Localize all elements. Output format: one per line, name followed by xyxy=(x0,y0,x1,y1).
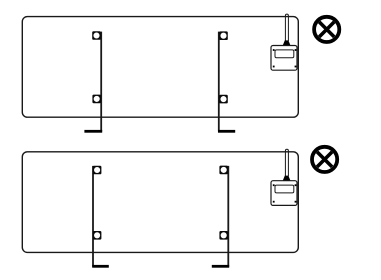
prohibition cross 2 xyxy=(317,152,332,167)
bracket 1 left foot xyxy=(84,130,102,133)
bracket 2 right top mounting hole xyxy=(219,166,228,175)
control box 2 display window xyxy=(275,185,294,193)
prohibition circle 2 xyxy=(312,147,337,172)
bracket 1 left bottom mounting hole xyxy=(92,95,101,104)
control box 1 display window xyxy=(275,50,294,58)
prohibition cross 1 xyxy=(319,22,334,37)
bracket 1 right foot xyxy=(218,130,235,133)
panel heater 2 body xyxy=(22,152,298,253)
control box 2 screw top-left xyxy=(273,184,275,186)
cable strain relief 1 xyxy=(283,40,291,45)
control box 1 screw top-right xyxy=(295,49,297,51)
bracket 2 left foot xyxy=(92,265,109,268)
bracket 2 right foot xyxy=(212,265,229,268)
control box 1 screw top-left xyxy=(273,49,275,51)
bracket 1 right vertical rail xyxy=(218,32,220,132)
control box 1 screw bottom-left xyxy=(273,66,275,68)
power cable 1 xyxy=(285,14,288,41)
bracket 1 left top mounting hole xyxy=(92,31,101,40)
panel heater 1 body xyxy=(22,17,298,118)
control box 2 screw top-right xyxy=(295,184,297,186)
bracket 2 left top mounting hole xyxy=(93,166,102,175)
bracket 2 right bottom mounting hole xyxy=(219,231,228,240)
control box 2 screw bottom-right xyxy=(295,201,297,203)
control box 1 screw bottom-right xyxy=(295,66,297,68)
control box 2 xyxy=(271,181,297,206)
bracket 2 left vertical rail xyxy=(92,166,94,267)
cable strain relief 2 xyxy=(283,176,291,181)
bracket 1 right bottom mounting hole xyxy=(219,95,228,104)
control box 1 xyxy=(271,46,297,71)
bracket 1 right top mounting hole xyxy=(219,31,228,40)
power cable 2 xyxy=(285,149,288,176)
bracket 2 right vertical rail xyxy=(227,166,229,267)
bracket 1 left vertical rail xyxy=(100,32,102,132)
control box 2 screw bottom-left xyxy=(273,201,275,203)
prohibition circle 1 xyxy=(314,17,339,42)
bracket 2 left bottom mounting hole xyxy=(93,231,102,240)
